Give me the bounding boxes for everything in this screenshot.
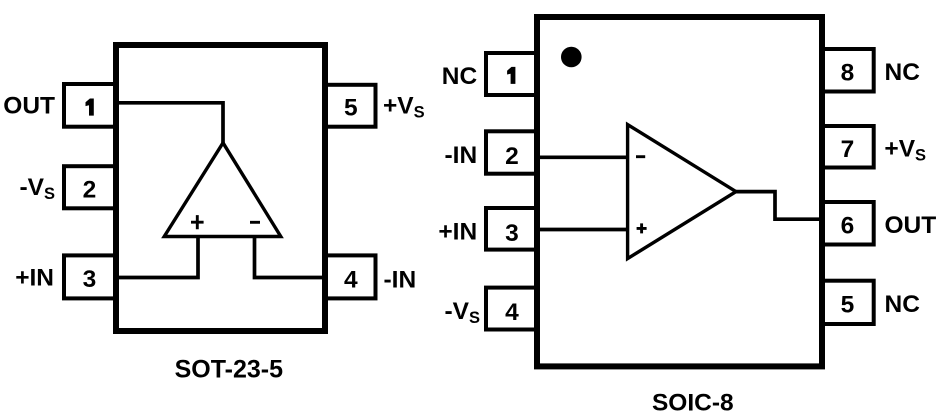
svg-text:5: 5 [841, 292, 855, 319]
svg-text:OUT: OUT [3, 93, 55, 120]
wire pin1 OUT to op-amp apex [113, 103, 223, 143]
package body SOT-23-5 [116, 45, 325, 331]
pin 3 box [486, 208, 538, 250]
pin 8 box [821, 49, 874, 92]
pin 1 box [64, 84, 116, 127]
svg-text:3: 3 [505, 220, 519, 247]
svg-text:2: 2 [505, 143, 519, 170]
plus symbol (+ input) [191, 215, 204, 229]
pin 2 box [64, 166, 116, 208]
plus symbol (+ input) [637, 223, 647, 233]
pin 4 box [325, 255, 376, 298]
pin 7 box [821, 126, 874, 168]
svg-text:OUT: OUT [885, 212, 937, 239]
pin 5 box [325, 85, 376, 127]
wire op-amp output to pin6 OUT [736, 192, 825, 220]
package body SOIC-8 [537, 17, 822, 366]
svg-text:-IN: -IN [445, 142, 478, 169]
svg-text:4: 4 [505, 299, 519, 326]
svg-text:6: 6 [841, 213, 855, 240]
svg-text:3: 3 [83, 266, 97, 293]
svg-text:2: 2 [83, 177, 97, 204]
pin 5 box [821, 281, 874, 324]
wire pin2 -IN to op-amp [534, 155, 628, 159]
pin 4 box [486, 288, 538, 330]
pin 2 box [486, 131, 538, 173]
pin number 1 [86, 99, 94, 116]
minus symbol (- input) [636, 155, 645, 158]
wire pin4 -IN to op-amp base [255, 237, 329, 278]
svg-text:SOIC-8: SOIC-8 [652, 389, 734, 416]
svg-text:NC: NC [442, 63, 478, 90]
svg-text:-IN: -IN [384, 267, 417, 294]
svg-text:5: 5 [344, 95, 358, 122]
svg-text:8: 8 [841, 60, 855, 87]
pin 1 box [486, 53, 538, 95]
pin 1 marker dot [561, 47, 582, 68]
svg-text:NC: NC [885, 291, 921, 318]
svg-text:7: 7 [841, 136, 855, 163]
svg-text:+IN: +IN [15, 264, 54, 291]
pin 3 box [64, 255, 116, 298]
minus symbol (- input) [250, 221, 260, 224]
wire pin3 +IN to op-amp [534, 228, 628, 232]
op-amp A2 (triangle, apex right) [628, 125, 736, 259]
svg-text:NC: NC [885, 59, 921, 86]
op-amp A1 (triangle, apex up) [164, 143, 281, 237]
svg-text:SOT-23-5: SOT-23-5 [175, 356, 283, 384]
svg-text:4: 4 [344, 266, 358, 293]
pin 6 box [821, 202, 874, 245]
svg-text:+IN: +IN [438, 219, 477, 246]
wire pin3 +IN to op-amp base [113, 237, 198, 278]
pin number 1 [507, 67, 515, 84]
